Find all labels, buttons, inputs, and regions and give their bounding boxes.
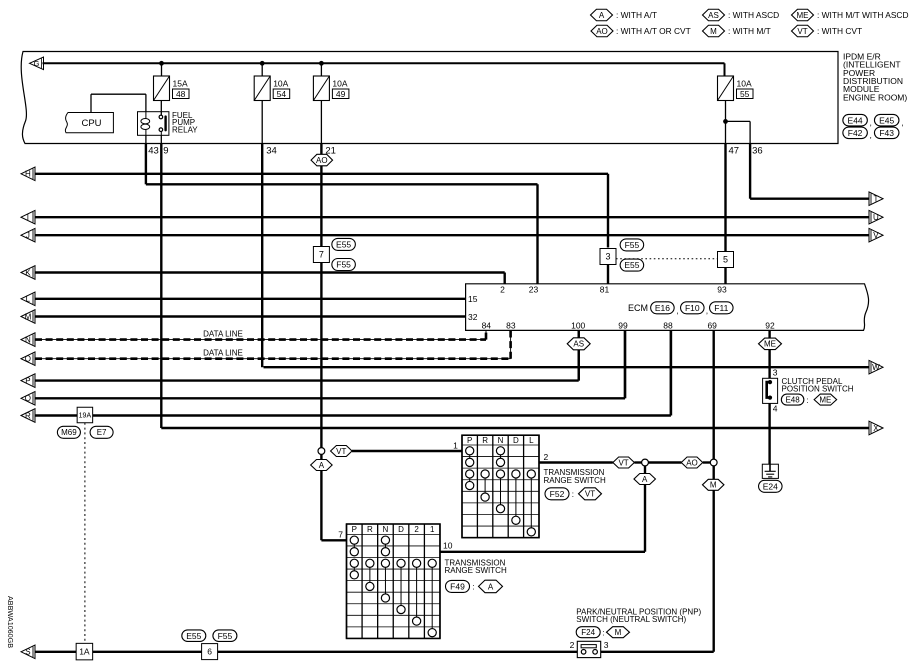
svg-text:J: J	[26, 231, 30, 240]
svg-text:92: 92	[765, 320, 775, 330]
svg-text:AO: AO	[316, 156, 328, 165]
svg-text:99: 99	[618, 320, 628, 330]
svg-text:48: 48	[176, 89, 186, 99]
svg-text:RELAY: RELAY	[172, 126, 198, 135]
svg-text:W: W	[872, 363, 880, 372]
svg-text:2: 2	[500, 285, 505, 295]
svg-text:N: N	[498, 436, 504, 445]
svg-text:F42: F42	[848, 128, 863, 138]
svg-text:15A: 15A	[173, 79, 188, 89]
svg-text:6: 6	[207, 647, 212, 657]
svg-text::: :	[472, 583, 474, 592]
svg-text:E16: E16	[655, 303, 670, 313]
svg-text:M: M	[710, 481, 717, 490]
svg-text:3: 3	[773, 367, 778, 377]
svg-text:K: K	[25, 268, 31, 277]
svg-text:: WITH ASCD: : WITH ASCD	[728, 10, 779, 20]
svg-text:,: ,	[901, 118, 903, 128]
svg-text:M: M	[25, 312, 32, 321]
svg-text:ABBWA1060GB: ABBWA1060GB	[6, 596, 15, 648]
svg-text:I: I	[27, 213, 29, 222]
svg-text:DATA LINE: DATA LINE	[203, 349, 243, 358]
svg-text:A: A	[488, 582, 494, 591]
svg-text:: WITH A/T: : WITH A/T	[616, 10, 657, 20]
svg-text:D: D	[398, 525, 404, 534]
svg-text:E48: E48	[785, 395, 800, 404]
svg-text:7: 7	[319, 250, 324, 260]
svg-text::: :	[572, 490, 574, 499]
svg-text:83: 83	[506, 320, 516, 330]
svg-text:: WITH M/T WITH ASCD: : WITH M/T WITH ASCD	[817, 10, 909, 20]
svg-text:H: H	[25, 170, 31, 179]
svg-text:A: A	[642, 475, 648, 484]
svg-text:,: ,	[706, 305, 708, 315]
svg-text:F49: F49	[450, 581, 465, 591]
svg-text:A: A	[319, 461, 325, 470]
svg-text:O: O	[25, 355, 31, 364]
svg-text:L: L	[529, 436, 534, 445]
svg-text:: WITH A/T OR CVT: : WITH A/T OR CVT	[616, 26, 691, 36]
svg-text:43: 43	[148, 146, 159, 157]
svg-text:E7: E7	[97, 428, 107, 437]
svg-text:M69: M69	[61, 428, 77, 437]
svg-text:10A: 10A	[737, 79, 752, 89]
svg-text:P: P	[25, 377, 30, 386]
svg-text:AO: AO	[596, 27, 608, 36]
svg-text:4: 4	[773, 404, 778, 414]
svg-text:E45: E45	[879, 115, 894, 125]
svg-text:R: R	[482, 436, 488, 445]
svg-text:E24: E24	[763, 481, 778, 491]
svg-text:9: 9	[163, 146, 168, 157]
svg-text:DATA LINE: DATA LINE	[203, 329, 243, 338]
svg-text:2: 2	[414, 525, 419, 534]
svg-text:E44: E44	[848, 115, 863, 125]
svg-text:VT: VT	[585, 490, 595, 499]
svg-text:G: G	[34, 59, 40, 68]
svg-text:P: P	[352, 525, 357, 534]
svg-text:AS: AS	[573, 340, 584, 349]
svg-text:1: 1	[453, 441, 458, 451]
svg-text:32: 32	[468, 312, 478, 322]
svg-text:ME: ME	[764, 340, 776, 349]
svg-text:69: 69	[707, 320, 717, 330]
svg-text:7: 7	[338, 529, 343, 539]
svg-text:VT: VT	[618, 458, 628, 467]
svg-text:X: X	[873, 424, 879, 433]
svg-text:M: M	[615, 628, 622, 637]
svg-text:ECM: ECM	[628, 303, 648, 313]
svg-text:T: T	[873, 195, 878, 204]
svg-text:D: D	[513, 436, 519, 445]
svg-text::: :	[806, 396, 808, 405]
svg-text:S: S	[25, 648, 30, 657]
svg-text:F55: F55	[625, 240, 640, 250]
svg-text:F11: F11	[714, 303, 728, 313]
svg-text:36: 36	[752, 146, 763, 157]
svg-text:V: V	[873, 231, 879, 240]
svg-text:R: R	[367, 525, 373, 534]
svg-text:88: 88	[663, 320, 673, 330]
svg-text:2: 2	[544, 452, 549, 462]
svg-text:CPU: CPU	[81, 118, 101, 129]
svg-text:3: 3	[605, 252, 610, 262]
svg-text:N: N	[25, 336, 31, 345]
svg-text:10: 10	[443, 541, 453, 551]
svg-text:E55: E55	[186, 631, 201, 641]
svg-text:AS: AS	[708, 11, 719, 20]
svg-text:10A: 10A	[273, 79, 288, 89]
svg-text:1: 1	[430, 525, 435, 534]
svg-text:55: 55	[740, 89, 750, 99]
svg-text:: WITH M/T: : WITH M/T	[728, 26, 771, 36]
svg-text:F55: F55	[336, 260, 351, 270]
svg-text:RANGE SWITCH: RANGE SWITCH	[445, 566, 507, 575]
svg-text:49: 49	[336, 89, 346, 99]
svg-text:ENGINE ROOM): ENGINE ROOM)	[843, 92, 907, 102]
svg-text:,: ,	[676, 305, 678, 315]
svg-text:AO: AO	[686, 458, 698, 467]
svg-text:F24: F24	[581, 628, 595, 637]
svg-text:23: 23	[529, 285, 539, 295]
svg-text:10A: 10A	[332, 79, 347, 89]
svg-text:E55: E55	[624, 260, 639, 270]
svg-text:VT: VT	[797, 27, 807, 36]
svg-text:47: 47	[729, 146, 740, 157]
svg-text:: WITH CVT: : WITH CVT	[817, 26, 862, 36]
svg-text:F52: F52	[550, 489, 565, 499]
svg-text:2: 2	[570, 640, 575, 650]
svg-text:U: U	[873, 213, 879, 222]
svg-text:R: R	[25, 411, 31, 420]
svg-text:34: 34	[266, 146, 277, 157]
svg-text:,: ,	[870, 130, 872, 140]
svg-text:E55: E55	[336, 239, 351, 249]
svg-text:ME: ME	[797, 11, 809, 20]
svg-text:81: 81	[600, 285, 610, 295]
svg-text:54: 54	[277, 89, 287, 99]
svg-text:1A: 1A	[79, 647, 90, 657]
svg-text:M: M	[710, 27, 717, 36]
svg-text:P: P	[467, 436, 472, 445]
svg-text:84: 84	[482, 320, 492, 330]
svg-text:5: 5	[723, 255, 728, 265]
svg-text:VT: VT	[336, 447, 346, 456]
svg-text:15: 15	[468, 294, 478, 304]
svg-text:RANGE SWITCH: RANGE SWITCH	[544, 476, 606, 485]
svg-text::: :	[602, 628, 604, 637]
svg-text:N: N	[383, 525, 389, 534]
svg-text:F55: F55	[218, 631, 233, 641]
svg-text:,: ,	[870, 118, 872, 128]
svg-text:Q: Q	[25, 394, 31, 403]
svg-text:F10: F10	[685, 303, 700, 313]
svg-text:F43: F43	[879, 128, 894, 138]
svg-text:19A: 19A	[79, 413, 92, 420]
svg-text:L: L	[26, 295, 31, 304]
svg-text:POSITION SWITCH: POSITION SWITCH	[782, 385, 854, 394]
svg-text:100: 100	[571, 320, 585, 330]
svg-text:93: 93	[717, 285, 727, 295]
svg-text:SWITCH (NEUTRAL SWITCH): SWITCH (NEUTRAL SWITCH)	[576, 615, 686, 624]
svg-text:A: A	[599, 11, 605, 20]
svg-text:3: 3	[604, 640, 609, 650]
svg-text:ME: ME	[819, 395, 831, 404]
